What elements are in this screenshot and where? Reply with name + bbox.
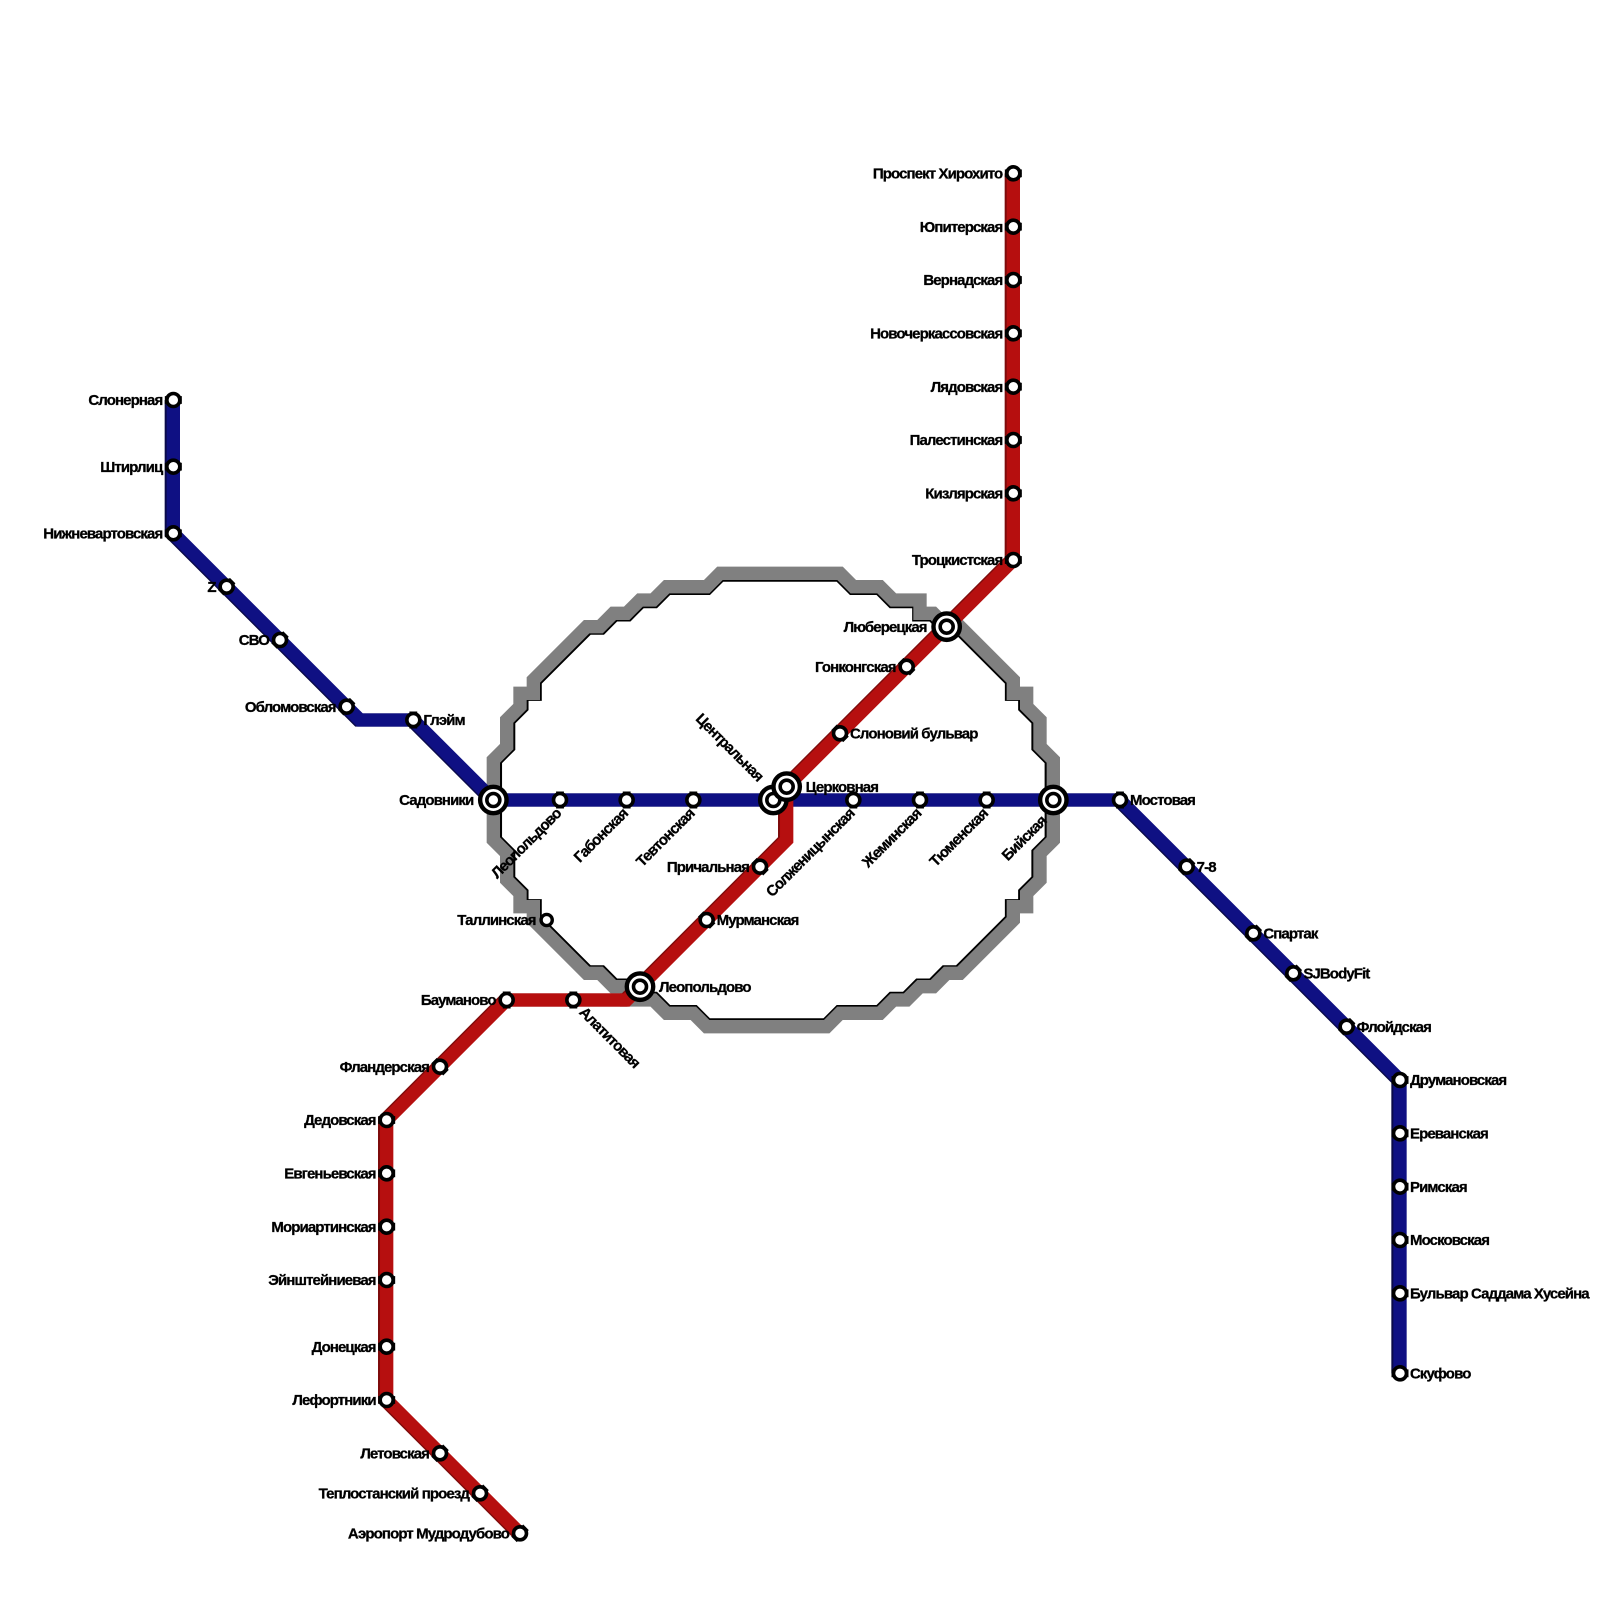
svg-text:Троцкистская: Троцкистская [912, 552, 1003, 569]
svg-text:Глэйм: Глэйм [423, 712, 465, 729]
svg-text:Новочеркассовская: Новочеркассовская [870, 325, 1002, 342]
station 7-8 (blue line) [1178, 858, 1216, 876]
station Проспект Хирохито (red line) [873, 165, 1022, 182]
station Гонконгская (red line) [815, 658, 915, 676]
station Теплостанский проезд (red line) [319, 1485, 489, 1503]
svg-text:Мурманская: Мурманская [717, 912, 799, 929]
blue line shadow [171, 400, 1398, 1373]
svg-text:Нижневартовская: Нижневартовская [43, 525, 162, 542]
station Лядовская (red line) [931, 379, 1022, 396]
svg-text:Юпитерская: Юпитерская [920, 219, 1003, 236]
svg-text:7-8: 7-8 [1197, 859, 1217, 876]
svg-text:Кизлярская: Кизлярская [925, 485, 1002, 502]
station Солженицынская (blue line) [763, 792, 860, 901]
ring line shadow [495, 575, 1051, 1025]
svg-text:SJBodyFit: SJBodyFit [1303, 965, 1370, 982]
station Юпитерская (red line) [920, 219, 1022, 236]
svg-text:Бульвар Саддама Хусейна: Бульвар Саддама Хусейна [1410, 1285, 1590, 1302]
svg-text:Ереванская: Ереванская [1410, 1125, 1488, 1142]
station Причальная (red line) [667, 858, 769, 876]
station Аэропорт Мудродубово (red line) [348, 1525, 529, 1543]
ring line (circle line, gray) [493, 573, 1053, 1026]
station Слонерная (blue line) [88, 392, 181, 409]
svg-text:Лефортники: Лефортники [292, 1392, 376, 1409]
svg-text:СВО: СВО [239, 632, 270, 649]
svg-text:Таллинская: Таллинская [457, 912, 536, 929]
station Донецкая (red line) [312, 1339, 396, 1356]
station Евгеньевская (red line) [284, 1165, 395, 1182]
svg-text:Мостовая: Мостовая [1130, 792, 1195, 809]
station Таллинская (ring line) [457, 912, 552, 929]
svg-text:Аэропорт Мудродубово: Аэропорт Мудродубово [348, 1525, 510, 1542]
svg-text:Люберецкая: Люберецкая [844, 619, 927, 636]
station Церковная (red line) [773, 773, 878, 799]
svg-text:Штирлиц: Штирлиц [100, 459, 164, 476]
station Нижневартовская (blue line) [43, 525, 182, 542]
svg-text:Бауманово: Бауманово [421, 992, 497, 1009]
station Слоновий бульвар (red line) [831, 725, 978, 743]
svg-text:Церковная: Церковная [806, 779, 879, 796]
svg-text:Леопольдово: Леопольдово [659, 979, 751, 996]
station Кизлярская (red line) [925, 485, 1022, 502]
station Бульвар Саддама Хусейна (blue line) [1392, 1285, 1591, 1302]
station Обломовская (blue line) [245, 698, 356, 716]
station Летовская (red line) [360, 1445, 448, 1463]
svg-text:Римская: Римская [1410, 1179, 1467, 1196]
station Лефортники (red line) [292, 1392, 395, 1409]
station Штирлиц (blue line) [100, 459, 182, 476]
svg-text:Дедовская: Дедовская [304, 1112, 376, 1129]
svg-text:Скуфово: Скуфово [1410, 1365, 1471, 1382]
station Мурманская (red line) [698, 911, 799, 929]
station Скуфово (blue line) [1392, 1365, 1472, 1382]
svg-text:Эйнштейниевая: Эйнштейниевая [268, 1272, 376, 1289]
svg-text:Спартак: Спартак [1263, 925, 1318, 942]
station Эйнштейниевая (red line) [268, 1272, 395, 1289]
station SJBodyFit (blue line) [1285, 965, 1371, 983]
station Z (blue line) [207, 578, 235, 596]
station Садовники (blue line) [399, 787, 506, 813]
station Бийская (blue line) [999, 787, 1067, 865]
station Центральная (blue line) [692, 710, 787, 813]
station Бауманово (red line) [421, 992, 513, 1010]
svg-text:Z: Z [207, 579, 216, 596]
station СВО (blue line) [239, 631, 289, 649]
svg-text:Палестинская: Палестинская [910, 432, 1003, 449]
station Фландерская (red line) [340, 1058, 449, 1076]
svg-text:Летовская: Летовская [360, 1445, 429, 1462]
station Жеминская (blue line) [858, 792, 926, 872]
svg-text:Друмановская: Друмановская [1410, 1072, 1506, 1089]
station Габонская (blue line) [571, 792, 633, 867]
station Московская (blue line) [1392, 1232, 1490, 1249]
svg-text:Слонерная: Слонерная [88, 392, 162, 409]
station Леопольдово (blue line) [488, 792, 566, 883]
station Друмановская (blue line) [1392, 1072, 1507, 1089]
svg-text:Евгеньевская: Евгеньевская [284, 1165, 376, 1182]
svg-text:Московская: Московская [1410, 1232, 1489, 1249]
station Глэйм (blue line) [407, 712, 466, 730]
station Вернадская (red line) [923, 272, 1022, 289]
station Спартак (blue line) [1245, 925, 1319, 943]
station Палестинская (red line) [910, 432, 1022, 449]
station Дедовская (red line) [304, 1112, 395, 1129]
station Тюменская (blue line) [926, 792, 993, 871]
svg-text:Теплостанский проезд: Теплостанский проезд [319, 1485, 471, 1502]
svg-text:Флойдская: Флойдская [1357, 1019, 1431, 1036]
station Ереванская (blue line) [1392, 1125, 1489, 1142]
station Троцкистская (red line) [912, 552, 1022, 569]
station Новочеркассовская (red line) [870, 325, 1022, 342]
station Флойдская (blue line) [1338, 1018, 1431, 1036]
station Алатитовая (red line) [567, 992, 643, 1072]
station Тевтонская (blue line) [633, 792, 700, 871]
station Мориартинская (red line) [271, 1219, 395, 1236]
red line shadow [385, 173, 1012, 1533]
svg-text:Садовники: Садовники [399, 792, 474, 809]
station Леопольдово (red line) [627, 973, 752, 999]
svg-text:Донецкая: Донецкая [312, 1339, 376, 1356]
svg-text:Фландерская: Фландерская [340, 1059, 430, 1076]
svg-text:Мориартинская: Мориартинская [271, 1219, 375, 1236]
station Люберецкая (red line) [844, 613, 960, 639]
svg-text:Лядовская: Лядовская [931, 379, 1003, 396]
svg-text:Проспект Хирохито: Проспект Хирохито [873, 165, 1003, 182]
svg-text:Вернадская: Вернадская [923, 272, 1002, 289]
svg-text:Причальная: Причальная [667, 859, 749, 876]
svg-text:Обломовская: Обломовская [245, 699, 336, 716]
station Мостовая (blue line) [1114, 792, 1196, 810]
station Римская (blue line) [1392, 1179, 1467, 1196]
svg-text:Гонконгская: Гонконгская [815, 659, 896, 676]
blue line [173, 400, 1400, 1373]
red line [387, 173, 1014, 1533]
svg-text:Слоновий бульвар: Слоновий бульвар [850, 725, 978, 742]
